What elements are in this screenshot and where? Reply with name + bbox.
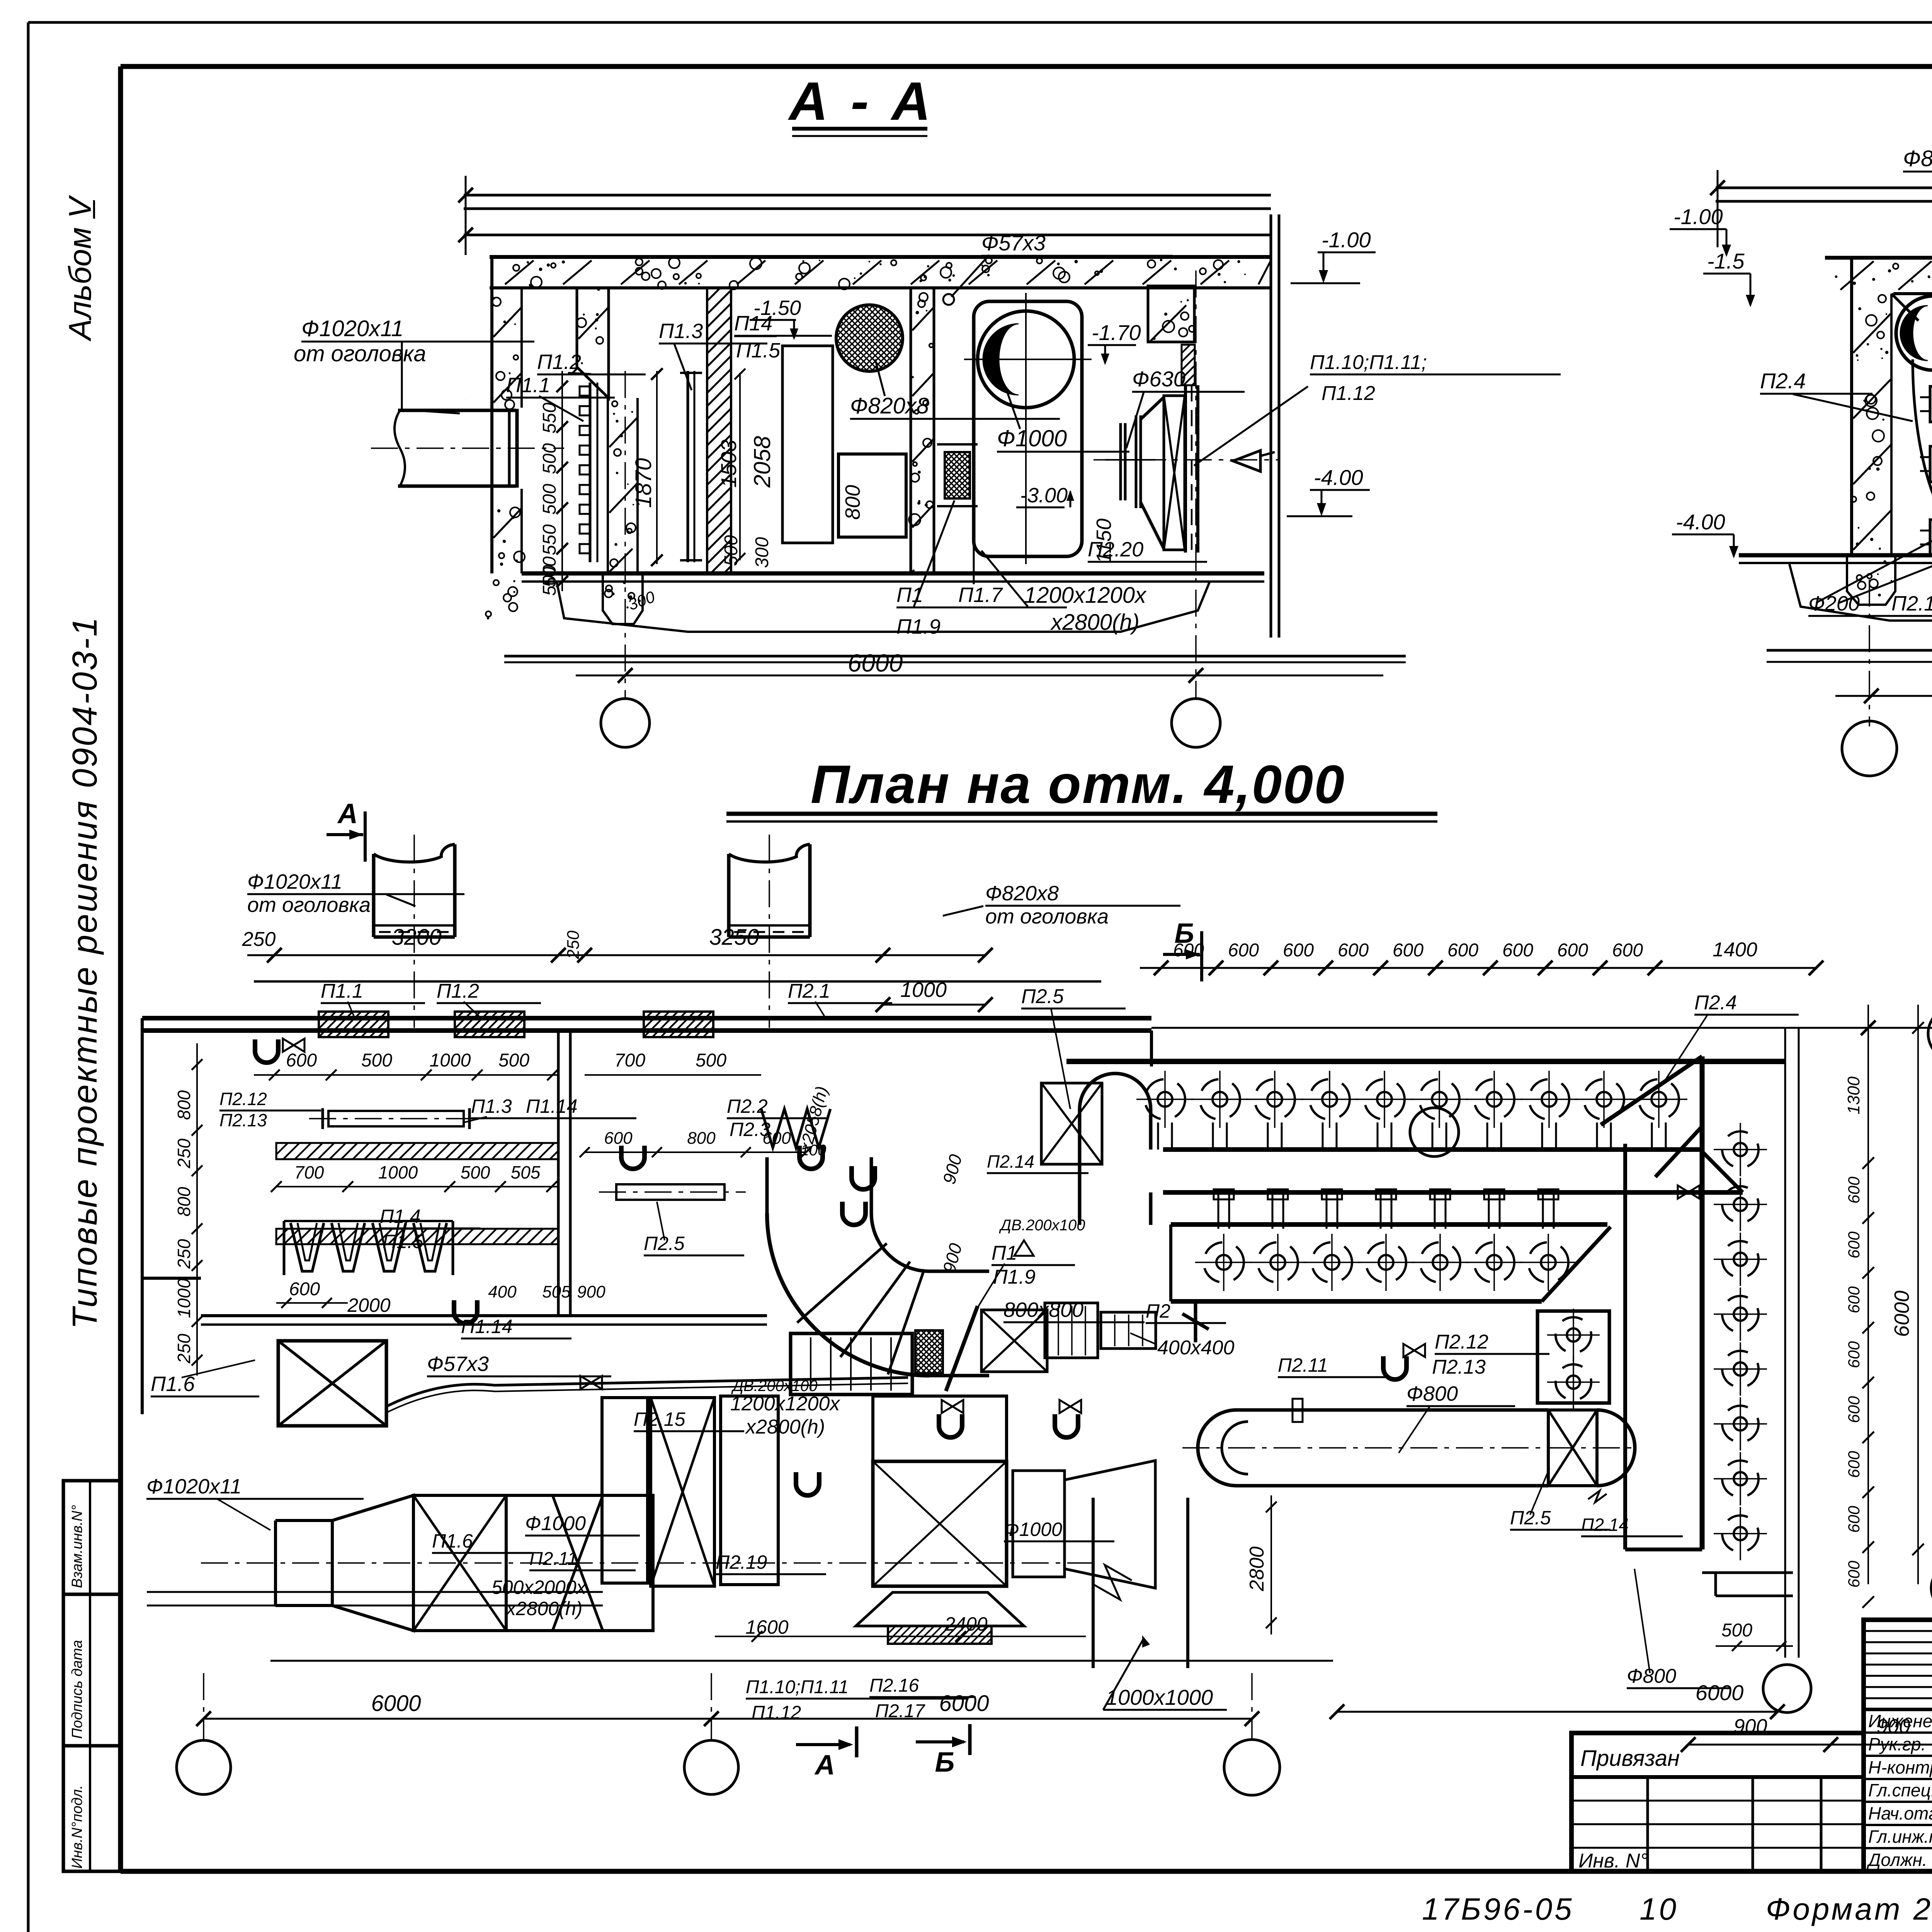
svg-text:505: 505 bbox=[542, 1282, 571, 1301]
svg-text:Ф1020х11: Ф1020х11 bbox=[247, 870, 342, 893]
svg-text:П2.19: П2.19 bbox=[716, 1551, 767, 1573]
plan right leg steps bbox=[1702, 1571, 1793, 1574]
svg-text:П2.10: П2.10 bbox=[1891, 592, 1932, 615]
svg-text:500х2000х: 500х2000х bbox=[492, 1577, 587, 1598]
svg-text:Б: Б bbox=[935, 1747, 955, 1778]
A-A hatched pier bbox=[422, 288, 1022, 573]
plan supply duct band 2 bbox=[1171, 1222, 1607, 1227]
signature table bbox=[1864, 1620, 1932, 1871]
svg-text:Ф630: Ф630 bbox=[1132, 367, 1185, 391]
svg-text:П2.20: П2.20 bbox=[1088, 538, 1143, 561]
svg-text:Ф800: Ф800 bbox=[1627, 1665, 1676, 1687]
page outer border bbox=[28, 21, 1932, 24]
A-A louver P1.1 bbox=[589, 383, 592, 562]
svg-text:250: 250 bbox=[174, 1333, 194, 1364]
A-A filter block bbox=[782, 346, 833, 543]
B-B three duct circles bbox=[1896, 296, 1932, 370]
svg-text:П2.14: П2.14 bbox=[1581, 1515, 1629, 1535]
svg-text:П2.12: П2.12 bbox=[1435, 1331, 1488, 1353]
svg-text:П2.11: П2.11 bbox=[1278, 1354, 1328, 1376]
B-B heater stacks bbox=[1930, 386, 1932, 422]
svg-text:П2.5: П2.5 bbox=[1021, 985, 1064, 1008]
A-A top-right concrete block bbox=[1148, 286, 1194, 342]
svg-text:П1.2: П1.2 bbox=[437, 980, 479, 1002]
svg-text:250: 250 bbox=[174, 1239, 194, 1269]
svg-text:П2.13: П2.13 bbox=[1432, 1356, 1486, 1378]
plan supply duct top band bbox=[1163, 1147, 1700, 1152]
svg-text:600: 600 bbox=[1845, 1505, 1863, 1533]
svg-text:от оголовка: от оголовка bbox=[985, 905, 1109, 928]
plan riser crown bbox=[1080, 1073, 1151, 1109]
heater teeth P1.4 bbox=[283, 1221, 286, 1275]
svg-text:А: А bbox=[337, 798, 358, 829]
svg-text:Типовые проектные решения 0904: Типовые проектные решения 0904-03-1 bbox=[66, 616, 104, 1329]
svg-text:План на отм. 4,000: План на отм. 4,000 bbox=[811, 754, 1345, 815]
A-A flex connector bbox=[898, 452, 1020, 498]
svg-text:600: 600 bbox=[604, 1129, 633, 1148]
svg-text:Альбом V̲: Альбом V̲ bbox=[63, 194, 98, 342]
svg-text:Ф800: Ф800 bbox=[1406, 1382, 1458, 1405]
svg-text:Ф820х8: Ф820х8 bbox=[850, 393, 929, 418]
svg-text:П2.11: П2.11 bbox=[529, 1549, 578, 1569]
svg-text:х2800(h): х2800(h) bbox=[1050, 610, 1139, 635]
svg-text:Гл.спец.: Гл.спец. bbox=[1868, 1780, 1932, 1800]
svg-text:6000: 6000 bbox=[848, 649, 903, 677]
svg-text:П1.10;П1.11: П1.10;П1.11 bbox=[746, 1677, 849, 1697]
svg-text:х2800(h): х2800(h) bbox=[745, 1416, 825, 1438]
svg-text:П1.12: П1.12 bbox=[1321, 382, 1375, 405]
svg-text:-1.5: -1.5 bbox=[1707, 249, 1745, 273]
svg-text:1200х1200х: 1200х1200х bbox=[730, 1393, 840, 1415]
plan P2.5 xbox top bbox=[1041, 1083, 1102, 1164]
plan chamber outer wall bbox=[254, 980, 1101, 983]
svg-text:600: 600 bbox=[1845, 1286, 1863, 1313]
A-A fan unit bbox=[974, 301, 1082, 556]
svg-text:250: 250 bbox=[174, 1138, 194, 1168]
svg-text:ДВ.200х100: ДВ.200х100 bbox=[999, 1217, 1085, 1234]
svg-text:Ф1000: Ф1000 bbox=[525, 1512, 586, 1535]
svg-text:6000: 6000 bbox=[1696, 1680, 1744, 1705]
svg-text:П1.5: П1.5 bbox=[736, 339, 781, 362]
svg-text:600: 600 bbox=[1447, 940, 1478, 961]
svg-text:П2.4: П2.4 bbox=[1694, 992, 1737, 1014]
svg-text:600: 600 bbox=[1393, 940, 1423, 961]
svg-text:А: А bbox=[814, 1750, 835, 1781]
svg-text:600: 600 bbox=[286, 1050, 317, 1071]
svg-text:800: 800 bbox=[687, 1129, 716, 1148]
svg-text:600: 600 bbox=[1173, 940, 1204, 961]
plan wall grilles bbox=[293, 1012, 421, 1037]
plan left dim chain bbox=[196, 1043, 198, 1376]
svg-text:250: 250 bbox=[242, 928, 276, 951]
B-B concrete roof band bbox=[1825, 256, 1932, 260]
svg-text:Ф800: Ф800 bbox=[1903, 146, 1932, 171]
svg-text:-1.00: -1.00 bbox=[1673, 204, 1723, 229]
plan partition wall bbox=[557, 1031, 560, 1316]
inner frame bbox=[121, 64, 1932, 69]
svg-text:П1.2: П1.2 bbox=[537, 350, 581, 374]
plan bellmouth below fan bbox=[856, 1592, 1024, 1626]
plan hatched band 1 bbox=[260, 1143, 578, 1159]
svg-text:П1.9: П1.9 bbox=[993, 1266, 1036, 1288]
svg-text:Должн.: Должн. bbox=[1866, 1850, 1927, 1870]
plan duct elbow to hall bbox=[765, 1157, 769, 1213]
svg-text:Ф57х3: Ф57х3 bbox=[427, 1352, 489, 1376]
svg-text:2000: 2000 bbox=[347, 1294, 390, 1316]
plan branch box P2.12 bbox=[1537, 1311, 1609, 1403]
plan anemostat column right bbox=[1722, 1131, 1759, 1168]
svg-text:600: 600 bbox=[1502, 940, 1533, 961]
svg-text:1870: 1870 bbox=[631, 458, 656, 508]
A-A right pier bbox=[926, 501, 933, 508]
svg-text:1400: 1400 bbox=[1713, 939, 1757, 961]
svg-text:Подпись дата: Подпись дата bbox=[69, 1640, 85, 1739]
svg-text:А - А: А - А bbox=[788, 71, 935, 131]
A-A ground line bbox=[504, 655, 1406, 658]
svg-text:П1.1: П1.1 bbox=[321, 980, 363, 1002]
svg-text:900: 900 bbox=[1877, 1715, 1910, 1738]
plan top pipes bbox=[372, 854, 376, 937]
svg-text:П2.15: П2.15 bbox=[634, 1408, 685, 1430]
svg-text:Ф1000: Ф1000 bbox=[997, 425, 1067, 451]
svg-text:600: 600 bbox=[1338, 940, 1369, 961]
svg-text:1503: 1503 bbox=[716, 440, 741, 488]
svg-text:П1.14: П1.14 bbox=[461, 1316, 513, 1337]
B-B dim 6000 bbox=[1835, 695, 1932, 697]
svg-text:2800: 2800 bbox=[1246, 1546, 1268, 1592]
svg-text:6000: 6000 bbox=[1890, 1291, 1913, 1337]
svg-text:П2.1: П2.1 bbox=[788, 980, 830, 1002]
plan filter box P1.10 bbox=[791, 1333, 912, 1395]
svg-text:-4.00: -4.00 bbox=[1676, 510, 1725, 534]
plan hall top wall bbox=[1150, 1031, 1153, 1066]
svg-text:Ф1020х11: Ф1020х11 bbox=[301, 316, 403, 341]
plan axis bubbles bottom bbox=[177, 1740, 231, 1794]
plan channel lines bbox=[147, 1591, 603, 1593]
A-A dim 6000 bbox=[576, 675, 1383, 677]
plan P2 chamber side bbox=[761, 1109, 830, 1148]
svg-text:900: 900 bbox=[1734, 1715, 1767, 1738]
svg-text:Гл.инж.пр: Гл.инж.пр bbox=[1868, 1827, 1932, 1847]
svg-text:П1.3: П1.3 bbox=[659, 320, 703, 343]
A-A dim chain left bbox=[561, 371, 563, 591]
svg-text:1000: 1000 bbox=[174, 1278, 194, 1318]
svg-text:П2.12: П2.12 bbox=[219, 1089, 267, 1109]
plan anemostat row 2 bbox=[1204, 1242, 1244, 1282]
svg-text:500: 500 bbox=[539, 484, 560, 515]
svg-text:П2.17: П2.17 bbox=[875, 1701, 926, 1721]
svg-text:Нач.отг.: Нач.отг. bbox=[1868, 1803, 1932, 1823]
privyazan box bbox=[1571, 1733, 1864, 1871]
plan right dim chain bbox=[1867, 1005, 1869, 1584]
svg-text:500: 500 bbox=[461, 1162, 490, 1182]
svg-text:Ф1020х11: Ф1020х11 bbox=[146, 1475, 241, 1498]
plan valves bbox=[283, 1039, 294, 1052]
plan hall interior box 400x400 bbox=[1045, 1303, 1098, 1358]
plan bottom dims bbox=[204, 1718, 711, 1720]
plan dim 2800 vertical bbox=[1270, 1495, 1272, 1634]
svg-text:600: 600 bbox=[1283, 940, 1314, 961]
svg-text:600: 600 bbox=[1845, 1560, 1863, 1588]
svg-text:Инв. N°: Инв. N° bbox=[1578, 1850, 1648, 1872]
svg-text:2400: 2400 bbox=[944, 1613, 987, 1635]
svg-text:-1.70: -1.70 bbox=[1092, 320, 1141, 345]
svg-text:1000: 1000 bbox=[430, 1050, 471, 1071]
plan hatched band 2 + heater P1.4 bbox=[261, 1229, 578, 1244]
svg-text:900: 900 bbox=[577, 1282, 605, 1301]
svg-text:17Б96-05 10 Формат: 17Б96-05 10 Формат 22 bbox=[1422, 1892, 1932, 1926]
svg-text:3250: 3250 bbox=[709, 925, 759, 950]
svg-text:600: 600 bbox=[1228, 940, 1259, 961]
plan dims 700-1000-500-505 bbox=[276, 1186, 558, 1187]
svg-text:2058: 2058 bbox=[749, 436, 775, 488]
B-B ground line bbox=[1767, 649, 1932, 652]
plan hooks bbox=[255, 1039, 278, 1063]
svg-text:500: 500 bbox=[1721, 1620, 1752, 1641]
svg-text:Ф57х3: Ф57х3 bbox=[981, 231, 1046, 255]
plan top dim row 600s bbox=[1140, 967, 1816, 969]
svg-text:-3.00: -3.00 bbox=[1020, 484, 1068, 507]
B-B left wall footing bbox=[1847, 555, 1895, 605]
svg-text:П1.9: П1.9 bbox=[896, 615, 940, 638]
A-A diffuser and shutter bbox=[1119, 423, 1122, 500]
svg-text:500: 500 bbox=[721, 535, 742, 566]
svg-text:П2.4: П2.4 bbox=[1760, 369, 1806, 393]
plan top dim row bbox=[247, 954, 985, 956]
A-A concrete roof band bbox=[490, 255, 1271, 259]
svg-text:П2.16: П2.16 bbox=[869, 1675, 919, 1696]
plan anemostat row 1 bbox=[1145, 1079, 1185, 1119]
svg-text:П1.1: П1.1 bbox=[506, 374, 550, 397]
svg-text:от оголовка: от оголовка bbox=[294, 341, 426, 366]
svg-text:П1.7: П1.7 bbox=[958, 583, 1003, 607]
A-A partition P1.3 bbox=[687, 371, 689, 562]
svg-text:1300: 1300 bbox=[1844, 1077, 1863, 1114]
svg-text:500: 500 bbox=[539, 443, 560, 474]
svg-text:550: 550 bbox=[539, 524, 560, 555]
A-A left wall bbox=[505, 400, 514, 409]
svg-text:6000: 6000 bbox=[371, 1691, 421, 1716]
elbow flanges bbox=[797, 1243, 887, 1323]
svg-text:400: 400 bbox=[488, 1282, 517, 1301]
A-A pit outline bbox=[557, 582, 1209, 632]
section A-A ceiling slab lines bbox=[464, 194, 1271, 197]
svg-text:800: 800 bbox=[174, 1090, 194, 1120]
svg-text:600: 600 bbox=[762, 1129, 791, 1148]
left attribute column bbox=[63, 1481, 120, 1871]
svg-text:300: 300 bbox=[752, 537, 772, 568]
svg-text:600: 600 bbox=[1845, 1176, 1863, 1204]
svg-text:от оголовка: от оголовка bbox=[247, 893, 371, 917]
svg-text:1200х1200х: 1200х1200х bbox=[1024, 583, 1147, 608]
svg-text:Ф820х8: Ф820х8 bbox=[985, 882, 1059, 905]
B-B floor bbox=[1739, 553, 1932, 558]
B-B U duct arcs bbox=[1913, 359, 1932, 541]
svg-text:П2.13: П2.13 bbox=[219, 1110, 267, 1130]
svg-text:800: 800 bbox=[841, 485, 864, 520]
svg-text:600: 600 bbox=[1845, 1396, 1863, 1423]
plan bottom duct F800 bbox=[1236, 1408, 1548, 1412]
svg-text:Взам.инв.N°: Взам.инв.N° bbox=[69, 1505, 85, 1588]
svg-text:1000х1000: 1000х1000 bbox=[1106, 1685, 1213, 1709]
svg-text:П1.10;П1.11;: П1.10;П1.11; bbox=[1310, 351, 1427, 374]
svg-text:1600: 1600 bbox=[745, 1616, 788, 1638]
svg-text:500: 500 bbox=[696, 1050, 726, 1071]
svg-text:П1: П1 bbox=[992, 1242, 1017, 1264]
svg-text:Н-контр: Н-контр bbox=[1868, 1757, 1932, 1777]
svg-text:П2: П2 bbox=[1146, 1300, 1170, 1322]
svg-text:6000: 6000 bbox=[939, 1691, 989, 1716]
svg-text:505: 505 bbox=[511, 1162, 541, 1182]
svg-text:3200: 3200 bbox=[391, 925, 441, 950]
plan vertical duct 1000x1000 bbox=[1092, 1498, 1095, 1668]
svg-text:П1.6: П1.6 bbox=[432, 1530, 473, 1552]
A-A mesh circle F820x8 bbox=[771, 303, 968, 373]
svg-text:-1.50: -1.50 bbox=[753, 296, 801, 320]
svg-text:-1.00: -1.00 bbox=[1321, 228, 1371, 252]
plan box P2.6 bbox=[981, 1310, 1047, 1372]
svg-text:П1.12: П1.12 bbox=[752, 1702, 801, 1723]
svg-text:х2800(h): х2800(h) bbox=[505, 1598, 582, 1619]
plan machine row below chamber bbox=[201, 1562, 1094, 1564]
A-A pier footing bbox=[603, 573, 643, 624]
svg-text:Привязан: Привязан bbox=[1580, 1746, 1680, 1771]
A-A intake pipe bbox=[398, 409, 516, 412]
B-B ceiling slab bbox=[1716, 187, 1932, 189]
plan silencer P1.3 bbox=[328, 1111, 464, 1126]
svg-text:П2.14: П2.14 bbox=[987, 1151, 1034, 1172]
svg-text:600: 600 bbox=[289, 1279, 320, 1299]
svg-text:1000: 1000 bbox=[378, 1162, 418, 1182]
svg-text:500: 500 bbox=[498, 1050, 529, 1071]
svg-text:П2.5: П2.5 bbox=[1510, 1507, 1551, 1529]
svg-text:П2.2: П2.2 bbox=[727, 1095, 768, 1117]
svg-text:600: 600 bbox=[1845, 1451, 1863, 1478]
svg-text:Ф1000: Ф1000 bbox=[1004, 1519, 1062, 1540]
svg-text:600: 600 bbox=[1612, 940, 1643, 961]
svg-text:400х400: 400х400 bbox=[1157, 1337, 1235, 1359]
svg-text:800: 800 bbox=[174, 1187, 194, 1216]
svg-text:600: 600 bbox=[1557, 940, 1588, 961]
svg-text:600: 600 bbox=[1845, 1341, 1863, 1368]
svg-text:600: 600 bbox=[1845, 1231, 1863, 1259]
plan chamber inner dims bbox=[254, 1074, 558, 1076]
svg-text:250: 250 bbox=[564, 930, 583, 959]
svg-text:700: 700 bbox=[294, 1162, 324, 1182]
plan P1.6 xbox bbox=[278, 1341, 386, 1426]
svg-text:700: 700 bbox=[614, 1050, 645, 1071]
svg-text:П1.3: П1.3 bbox=[471, 1095, 512, 1117]
svg-text:Ф200: Ф200 bbox=[1808, 592, 1860, 615]
A-A duct box 800 bbox=[838, 454, 906, 537]
svg-text:Инв.N°подл.: Инв.N°подл. bbox=[69, 1785, 85, 1869]
A-A wall pier 2 bbox=[583, 313, 585, 315]
plan pipe F57x3 bbox=[386, 1378, 908, 1406]
A-A floor bbox=[522, 571, 1264, 576]
svg-text:500: 500 bbox=[361, 1050, 392, 1071]
B-B left wall bbox=[1882, 418, 1884, 421]
svg-text:-4.00: -4.00 bbox=[1314, 465, 1363, 490]
